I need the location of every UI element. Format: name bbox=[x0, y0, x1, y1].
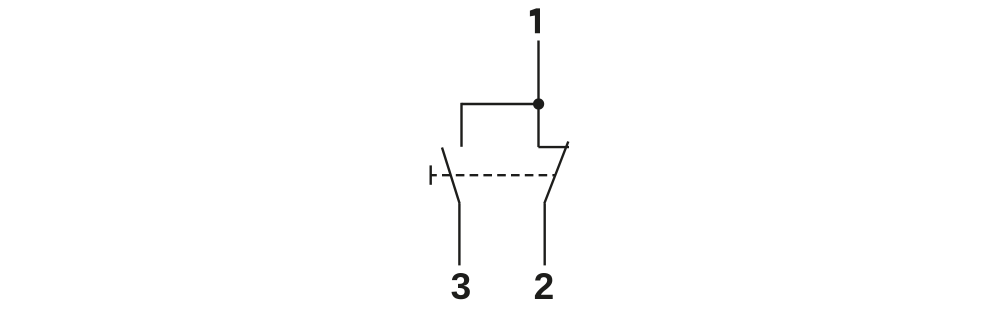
wire: left bottom lead to terminal 3 bbox=[458, 204, 460, 266]
svg-text:3: 3 bbox=[451, 266, 472, 307]
wire: right branch vertical below junction bbox=[537, 104, 539, 147]
wire: terminal 1 lead down to junction bbox=[537, 41, 539, 105]
node: junction dot bbox=[533, 98, 544, 109]
actuator: pushbutton T bar bbox=[430, 165, 432, 184]
mechanical link: dashed line between poles bbox=[431, 174, 556, 176]
wire: right fixed contact horizontal bar (NC pole) bbox=[538, 146, 569, 148]
wire: right bottom lead to terminal 2 bbox=[544, 204, 546, 266]
switch contact: left NO moving contact (slanted) bbox=[442, 148, 460, 204]
svg-text:2: 2 bbox=[534, 266, 555, 307]
wire: horizontal branch from junction to left pole bbox=[462, 103, 539, 105]
switch contact: right NC moving contact (slanted, crosses bar) bbox=[544, 142, 568, 204]
pin label 1 bbox=[530, 8, 540, 33]
wire: left branch vertical (fixed contact lead of NO pole) bbox=[460, 103, 462, 147]
